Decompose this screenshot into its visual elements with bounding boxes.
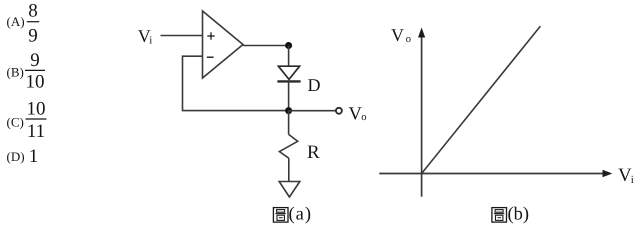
wire op-amp output <box>243 45 289 47</box>
option A fraction bar <box>27 21 39 23</box>
option C fraction bar <box>26 118 47 120</box>
junction Vo node <box>285 107 292 114</box>
graph horizontal axis <box>379 173 604 175</box>
caption 圖(a) glyph <box>273 208 288 223</box>
svg-text:i: i <box>149 34 152 46</box>
wire diode cathode to Vo node <box>288 81 290 110</box>
wire Vo node to resistor <box>288 111 290 135</box>
graph horizontal axis arrowhead <box>603 170 613 177</box>
caption 圖(b) glyph <box>492 208 507 223</box>
diode D cathode bar <box>277 80 300 82</box>
wire output node to diode anode <box>288 46 290 67</box>
svg-text:1: 1 <box>29 146 39 167</box>
svg-text:D: D <box>308 75 321 95</box>
svg-text:o: o <box>361 112 366 123</box>
svg-text:o: o <box>406 34 411 45</box>
svg-text:V: V <box>391 25 404 45</box>
svg-text:10: 10 <box>26 71 45 92</box>
svg-text:i: i <box>631 174 634 186</box>
resistor R zigzag <box>279 134 297 158</box>
svg-text:9: 9 <box>28 25 38 46</box>
svg-text:(A): (A) <box>7 14 25 29</box>
svg-text:(b): (b) <box>508 204 530 224</box>
option B fraction bar <box>25 69 45 71</box>
svg-text:R: R <box>307 142 320 163</box>
diode D triangle <box>278 66 299 79</box>
graph vertical axis <box>421 34 423 197</box>
svg-text:(C): (C) <box>7 114 24 129</box>
wire Vi to op-amp + input <box>161 35 203 37</box>
output terminal open circle <box>336 108 342 114</box>
wire feedback from output node to - input <box>183 56 289 110</box>
svg-text:11: 11 <box>27 121 45 142</box>
op-amp - input pin mark <box>207 56 214 58</box>
junction op-amp output node <box>285 42 292 49</box>
graph transfer curve line <box>422 26 541 173</box>
svg-text:(a): (a) <box>289 204 313 224</box>
svg-text:(D): (D) <box>7 149 25 164</box>
graph vertical axis arrowhead <box>418 28 425 38</box>
ground symbol <box>279 182 300 198</box>
svg-text:8: 8 <box>28 1 38 22</box>
wire resistor to ground <box>288 158 290 181</box>
svg-text:9: 9 <box>30 50 40 71</box>
svg-text:(B): (B) <box>7 65 24 80</box>
svg-text:10: 10 <box>27 99 46 120</box>
op-amp + input pin mark <box>207 32 214 39</box>
op-amp U1 triangle <box>203 11 244 78</box>
wire Vo node to output terminal <box>289 110 336 112</box>
